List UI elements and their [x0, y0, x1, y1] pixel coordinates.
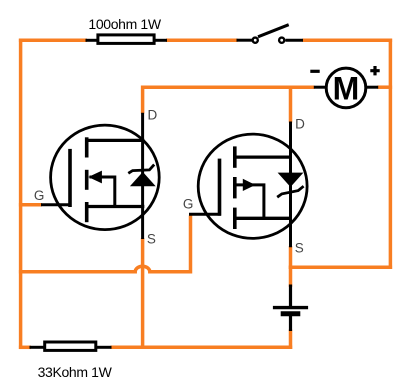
transistor Q1 drain-source vertical conductor	[141, 113, 144, 239]
wire right vertical rail	[389, 39, 393, 269]
wire source Q2 to right rail horizontal	[289, 266, 392, 270]
resistor R2 lead left	[30, 346, 46, 349]
svg-text:D: D	[148, 108, 158, 123]
wire drain drop to Q2	[289, 86, 293, 123]
svg-text:D: D	[295, 117, 305, 132]
transistor Q1 gate bar	[68, 149, 72, 207]
diode D2 zener cathode bar	[277, 186, 303, 197]
transistor Q1 arrow (pointing to channel)	[88, 171, 102, 184]
transistor Q1 gate lead black	[41, 203, 72, 206]
wire top right orange segment (switch to right corner)	[303, 39, 393, 43]
transistor Q2 channel dash middle	[233, 177, 237, 198]
wire left vertical rail	[19, 39, 23, 349]
resistor R1 lead right	[154, 39, 167, 42]
svg-text:G: G	[183, 196, 194, 211]
svg-text:100ohm 1W: 100ohm 1W	[88, 16, 161, 32]
transistor Q1 source stub	[85, 205, 144, 208]
MOSFET Q1	[41, 113, 159, 239]
wire source Q2 vertical	[289, 246, 293, 287]
svg-text:G: G	[34, 188, 45, 203]
transistor Q2 drain stub	[233, 155, 292, 158]
svg-text:33Kohm 1W: 33Kohm 1W	[38, 364, 113, 380]
switch SW1 lever	[258, 25, 289, 37]
transistor Q1 body connection line	[90, 177, 115, 208]
wire bottom left orange segment	[19, 346, 31, 350]
diode D1 (body diode of Q1) triangle	[130, 172, 156, 186]
transistor Q2 source stub	[233, 217, 292, 220]
diode D2 (body diode of Q2) triangle	[278, 173, 304, 187]
wire battery bottom vertical	[289, 330, 293, 350]
wire top middle orange segment (resistor to switch)	[166, 39, 238, 43]
transistor Q2 drain-source vertical conductor	[289, 122, 292, 248]
svg-text:S: S	[295, 241, 304, 256]
wire middle horizontal with hop-over	[19, 266, 191, 272]
wire bottom orange segment (resistor to battery)	[111, 346, 293, 350]
svg-text:S: S	[147, 232, 156, 247]
switch SW1 lead right	[286, 39, 304, 42]
transistor Q2 body circle	[198, 134, 307, 238]
switch SW1 pole circle	[253, 38, 258, 43]
battery BT1 bottom lead	[289, 316, 292, 331]
resistor R1 lead left	[86, 39, 99, 42]
battery BT1 positive plate (long)	[273, 306, 308, 309]
motor minus sign	[310, 70, 319, 73]
wire motor plus lead orange	[378, 85, 393, 89]
transistor Q2 arrow (pointing away from channel)	[243, 179, 256, 191]
wire top-left orange segment	[19, 39, 87, 43]
diode D1 zener cathode bar	[128, 165, 154, 174]
MOSFET Q2	[189, 122, 307, 248]
transistor Q1 channel dash top	[85, 137, 89, 157]
transistor Q1 channel dash middle	[85, 170, 89, 190]
wire gate riser Q2	[189, 216, 193, 274]
transistor Q1 drain stub	[85, 139, 144, 142]
svg-text:M: M	[333, 71, 360, 107]
resistor R1 body	[98, 35, 154, 44]
resistor R2 lead right	[96, 346, 112, 349]
battery BT1 negative plate (short thick)	[281, 311, 301, 316]
switch SW1 throw circle	[279, 38, 284, 43]
motor M1 lead right black	[366, 86, 379, 89]
transistor Q1 channel dash bottom	[85, 202, 89, 222]
transistor Q2 channel dash top	[233, 146, 237, 167]
switch SW1 lead left	[237, 39, 253, 42]
transistor Q2 channel dash bottom	[233, 208, 237, 229]
wire source Q1 vertical	[141, 238, 145, 349]
transistor Q2 gate bar	[218, 159, 222, 216]
motor M1 lead left black	[314, 86, 327, 89]
motor M1 body circle	[326, 68, 366, 108]
battery BT1 top lead	[289, 285, 292, 307]
wire gate lead Q1 orange	[19, 203, 42, 207]
transistor Q2 gate lead black	[189, 213, 221, 216]
motor plus sign	[370, 66, 379, 75]
wire drain drop to Q1	[141, 86, 145, 114]
transistor Q1 body circle	[51, 125, 160, 230]
transistor Q2 body connection line	[236, 185, 264, 220]
resistor R2 body	[45, 342, 96, 350]
wire drain bus horizontal	[141, 85, 315, 89]
